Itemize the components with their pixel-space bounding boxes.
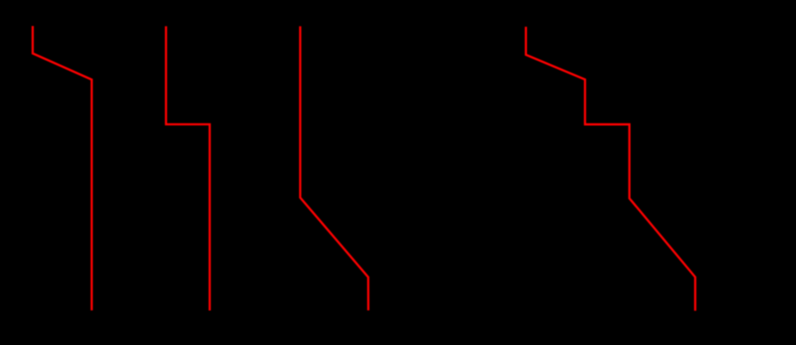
curve 4 xyxy=(526,27,695,311)
curve 3 xyxy=(300,26,368,310)
curve 1 xyxy=(33,26,92,310)
curve 2 xyxy=(166,26,210,310)
